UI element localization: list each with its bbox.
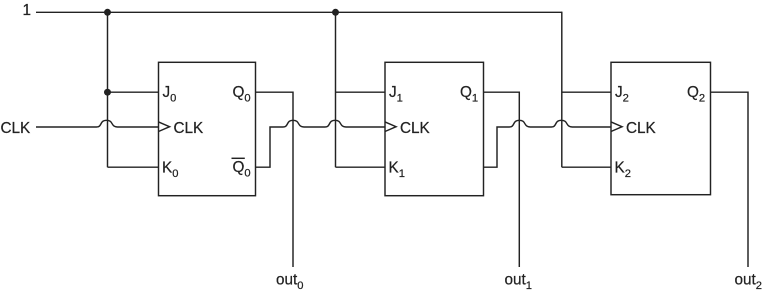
svg-text:K2: K2 bbox=[615, 159, 631, 180]
pin K2 label bbox=[615, 159, 631, 180]
node out2 label bbox=[735, 272, 763, 293]
svg-text:CLK: CLK bbox=[400, 120, 431, 137]
pin CLK label U1 bbox=[174, 120, 205, 137]
clock triangle U3 bbox=[611, 122, 622, 132]
pin Q2 label bbox=[687, 84, 705, 105]
node 1 label bbox=[23, 2, 32, 19]
junction dot V1 at J0 row bbox=[104, 89, 111, 96]
svg-text:K0: K0 bbox=[162, 159, 178, 180]
wire J2 stub bbox=[562, 91, 611, 93]
pin Q0-bar label bbox=[232, 158, 251, 179]
svg-text:J2: J2 bbox=[615, 84, 629, 105]
wire J1 stub bbox=[336, 91, 386, 93]
clock triangle U1 bbox=[159, 122, 170, 132]
node out0 label bbox=[276, 272, 304, 293]
svg-text:out1: out1 bbox=[505, 272, 533, 293]
pin K1 label bbox=[389, 159, 405, 180]
flip-flop U1 box bbox=[159, 62, 256, 195]
node CLK label bbox=[1, 120, 32, 137]
wire K2 stub bbox=[562, 166, 611, 168]
svg-text:K1: K1 bbox=[389, 159, 405, 180]
svg-text:Q0: Q0 bbox=[233, 84, 251, 105]
wire Q2 output to out2 bbox=[711, 92, 749, 267]
svg-text:out0: out0 bbox=[276, 272, 304, 293]
pin Q1 label bbox=[460, 84, 478, 105]
junction dot top rail at V1 bbox=[104, 9, 111, 16]
wire Q1-bar to CLK of U3 with hops bbox=[484, 120, 612, 167]
wire Q0 output to out0 bbox=[256, 92, 294, 267]
wire K0 stub bbox=[108, 166, 159, 168]
pin CLK label U2 bbox=[400, 120, 431, 137]
svg-text:Q1: Q1 bbox=[460, 84, 478, 105]
pin J0 label bbox=[163, 84, 177, 105]
junction dot top rail at V2 bbox=[332, 9, 339, 16]
flip-flop U3 box bbox=[611, 62, 711, 194]
svg-text:J0: J0 bbox=[163, 84, 177, 105]
node out1 label bbox=[505, 272, 533, 293]
pin CLK label U3 bbox=[626, 120, 657, 137]
wire K1 stub bbox=[336, 166, 386, 168]
svg-text:out2: out2 bbox=[735, 272, 763, 293]
wire V3 vertical from rail corner to K2 row bbox=[561, 12, 563, 168]
flip-flop U2 box bbox=[385, 62, 484, 195]
wire CLK input with hop over V1 bbox=[36, 120, 159, 127]
svg-text:CLK: CLK bbox=[1, 120, 32, 137]
svg-text:J1: J1 bbox=[389, 84, 403, 105]
pin J2 label bbox=[615, 84, 629, 105]
wire Q1 output to out1 bbox=[484, 92, 520, 267]
svg-text:Q2: Q2 bbox=[687, 84, 705, 105]
svg-text:Q0: Q0 bbox=[233, 159, 251, 180]
pin Q0 label bbox=[233, 84, 251, 105]
pin J1 label bbox=[389, 84, 403, 105]
svg-text:CLK: CLK bbox=[626, 120, 657, 137]
wire top rail bbox=[36, 11, 562, 13]
clock triangle U2 bbox=[385, 122, 396, 132]
svg-text:1: 1 bbox=[23, 2, 32, 19]
svg-text:CLK: CLK bbox=[174, 120, 205, 137]
wire J0 stub bbox=[108, 91, 159, 93]
wire Q0-bar to CLK of U2 with hops bbox=[256, 120, 386, 167]
wire V1 vertical from rail to K0 row bbox=[107, 12, 109, 167]
pin K0 label bbox=[162, 159, 178, 180]
wire V2 vertical from rail to K1 row bbox=[335, 12, 337, 167]
